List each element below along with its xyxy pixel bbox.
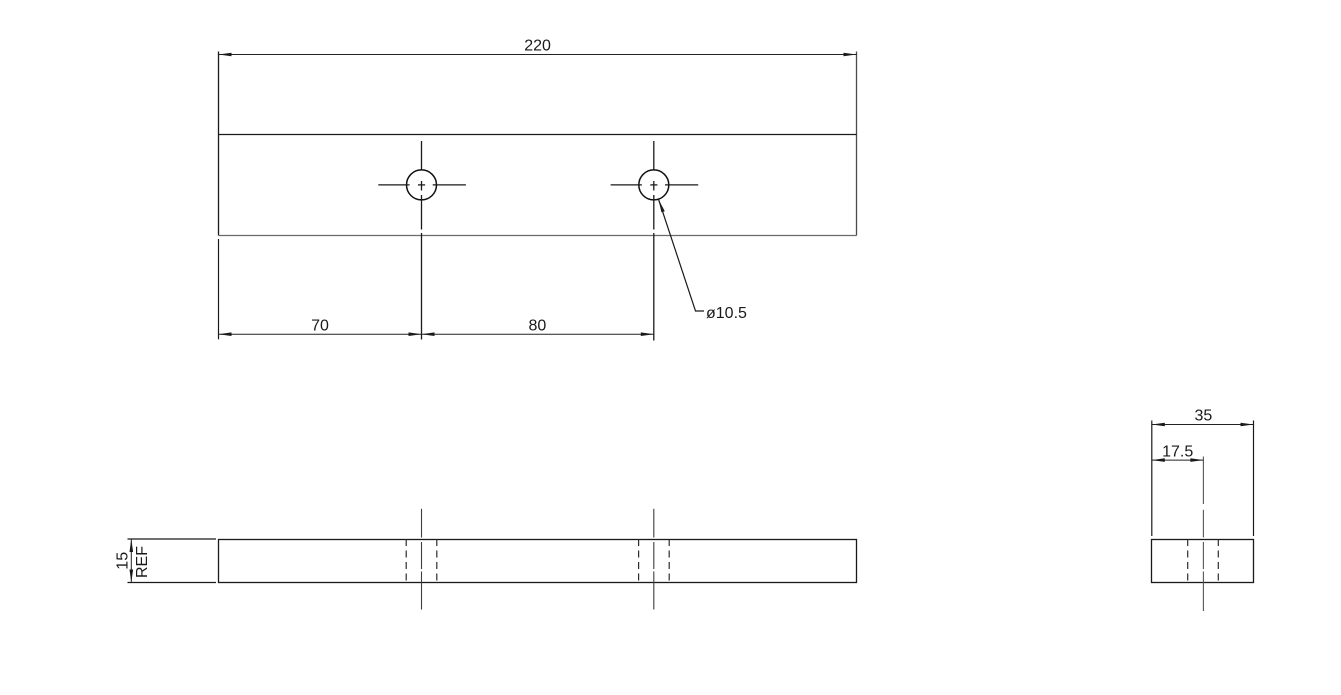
svg-text:35: 35 [1195, 407, 1213, 424]
svg-text:80: 80 [529, 318, 547, 335]
top view top edge [219, 134, 857, 136]
svg-text:70: 70 [311, 318, 329, 335]
dimension 220 [219, 38, 857, 57]
end view center line [1202, 457, 1204, 612]
extension line below top view left [218, 239, 220, 339]
svg-text:220: 220 [524, 38, 551, 55]
top view bottom edge [219, 235, 857, 237]
svg-text:ø10.5: ø10.5 [706, 305, 747, 322]
side view hole 2 center line [653, 509, 655, 610]
svg-text:17.5: 17.5 [1162, 443, 1193, 460]
side view hidden hole 1 [406, 539, 437, 583]
svg-text:15: 15 [114, 552, 131, 570]
dimension 15 REF [114, 539, 216, 583]
hole H2 circle [639, 170, 669, 200]
side view outline [219, 540, 857, 583]
hole H1 circle [407, 170, 437, 200]
svg-text:REF: REF [134, 546, 151, 578]
hole H1 center mark [378, 141, 466, 340]
dimension 35 [1152, 407, 1254, 536]
hole H2 center mark [611, 141, 699, 341]
top view right edge / extension line [856, 52, 858, 236]
dimension 80 [422, 318, 654, 337]
end view hidden hole [1188, 539, 1219, 583]
top view left edge / extension line [218, 52, 220, 236]
leader to hole H2 with label ø10.5 [659, 200, 747, 323]
side view hidden hole 2 [639, 539, 670, 583]
dimension 70 [219, 318, 422, 337]
side view hole 1 center line [421, 509, 423, 610]
end view outline [1152, 540, 1254, 583]
dimension 17.5 [1152, 443, 1204, 462]
